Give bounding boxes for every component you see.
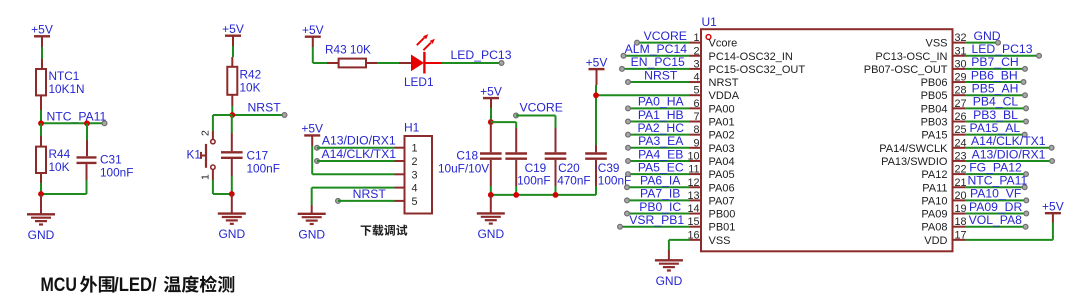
svg-text:PA09_DR: PA09_DR bbox=[969, 200, 1022, 214]
wire +5V to R43 bbox=[312, 37, 314, 47]
svg-text:11: 11 bbox=[688, 164, 699, 176]
svg-text:C17: C17 bbox=[247, 149, 269, 163]
wire C18 bottom lead bbox=[490, 160, 492, 186]
svg-text:31: 31 bbox=[955, 45, 967, 57]
pin 9 U1 (PA03) / net PA3_EA bbox=[626, 134, 735, 155]
ground (U1 VSS) bbox=[655, 259, 683, 261]
wire junction to R44 bbox=[40, 123, 42, 136]
svg-text:A13/DIO/RX1: A13/DIO/RX1 bbox=[972, 147, 1046, 161]
svg-text:C39: C39 bbox=[598, 161, 620, 175]
svg-text:U1: U1 bbox=[702, 15, 718, 29]
wire +5V to H1 pin 3 bbox=[311, 135, 313, 146]
svg-text:PA10: PA10 bbox=[921, 195, 947, 207]
svg-text:1: 1 bbox=[200, 174, 212, 180]
svg-text:PB3_BL: PB3_BL bbox=[973, 108, 1018, 122]
svg-text:C18: C18 bbox=[456, 148, 478, 162]
wire VSS pin 16 to ground bbox=[669, 239, 690, 241]
svg-text:PA11: PA11 bbox=[922, 182, 947, 194]
svg-text:VDDA: VDDA bbox=[709, 90, 740, 102]
ground (cap bank) bbox=[477, 212, 505, 214]
pin 3 U1 (PC15-OSC32_OUT) / net EN_PC15 bbox=[620, 55, 806, 76]
svg-text:VSS: VSS bbox=[925, 38, 947, 50]
svg-text:PB0_IC: PB0_IC bbox=[639, 200, 681, 214]
wire +5V to VDDA bbox=[596, 69, 598, 85]
svg-text:PA14/SWCLK: PA14/SWCLK bbox=[879, 143, 948, 155]
svg-text:100nF: 100nF bbox=[247, 162, 280, 176]
LED emission arrows bbox=[417, 34, 435, 50]
svg-text:PB05: PB05 bbox=[921, 90, 948, 102]
wire C39 bottom lead bbox=[595, 160, 597, 186]
svg-text:PA0_HA: PA0_HA bbox=[638, 95, 685, 109]
ground (H1) bbox=[298, 213, 326, 215]
svg-text:2: 2 bbox=[200, 130, 212, 136]
pin 19 U1 (PA09) / net PA09_DR bbox=[921, 200, 1028, 221]
svg-text:PA6_IA: PA6_IA bbox=[640, 174, 681, 188]
resistor R44 bbox=[36, 147, 46, 173]
wire to ground bbox=[231, 194, 233, 214]
svg-text:8: 8 bbox=[693, 124, 699, 136]
junction R42/K1/C17 bbox=[229, 112, 235, 118]
svg-text:PA02: PA02 bbox=[709, 130, 735, 142]
wire VDD to +5V bbox=[965, 239, 1053, 241]
svg-text:10K: 10K bbox=[240, 81, 261, 95]
svg-text:23: 23 bbox=[955, 150, 967, 162]
svg-text:PA10_VF: PA10_VF bbox=[970, 187, 1021, 201]
svg-text:GND: GND bbox=[218, 227, 245, 241]
svg-text:VCORE: VCORE bbox=[644, 29, 687, 43]
svg-text:100nF: 100nF bbox=[100, 166, 133, 180]
svg-text:PA05: PA05 bbox=[709, 169, 735, 181]
wire ground rail (caps) bbox=[491, 194, 596, 196]
svg-text:NRST: NRST bbox=[353, 187, 387, 201]
svg-text:PA04: PA04 bbox=[709, 156, 735, 168]
svg-text:+5V: +5V bbox=[1042, 199, 1064, 213]
junction C18 bottom bbox=[488, 192, 494, 198]
svg-text:PA01: PA01 bbox=[709, 117, 735, 129]
svg-text:PA13/SWDIO: PA13/SWDIO bbox=[881, 156, 948, 168]
svg-text:PB04: PB04 bbox=[921, 103, 948, 115]
wire R42 to node NRST bbox=[231, 95, 233, 106]
wire bottom rail R44-C31 bbox=[41, 193, 87, 195]
junction C19 bottom bbox=[513, 192, 519, 198]
svg-text:4: 4 bbox=[693, 72, 699, 84]
junction at C31 top bbox=[84, 120, 90, 126]
pin 15 U1 (PB01) / net VSR_PB1 bbox=[618, 213, 736, 234]
svg-text:FG_PA12: FG_PA12 bbox=[969, 160, 1022, 174]
svg-text:10K1N: 10K1N bbox=[49, 82, 85, 96]
capacitor C19, value 100nF bbox=[505, 152, 527, 154]
svg-text:GND: GND bbox=[974, 29, 1001, 43]
svg-text:R43 10K: R43 10K bbox=[325, 43, 371, 57]
wire R43 to LED1 bbox=[366, 62, 377, 64]
svg-text:A13/DIO/RX1: A13/DIO/RX1 bbox=[322, 134, 396, 148]
pin 18 U1 (PA08) / net VOL_PA8 bbox=[921, 213, 1028, 234]
svg-text:5: 5 bbox=[412, 196, 418, 208]
svg-text:32: 32 bbox=[955, 32, 967, 44]
svg-text:PA15: PA15 bbox=[921, 130, 947, 142]
pin 2 U1 (PC14-OSC32_IN) / net ALM_PC14 bbox=[621, 42, 793, 63]
svg-text:NRST: NRST bbox=[644, 68, 678, 82]
pin 10 U1 (PA04) / net PA4_EB bbox=[626, 147, 735, 168]
pin 17 U1 (VDD) bbox=[924, 229, 966, 247]
capacitor C17 bbox=[221, 151, 243, 153]
wire R44 to ground rail bbox=[40, 173, 42, 183]
switch K1 (push button) bbox=[211, 139, 215, 143]
svg-text:MCU: MCU bbox=[41, 275, 77, 296]
svg-text:+5V: +5V bbox=[31, 23, 53, 37]
pin 1 U1 (Vcore) / net VCORE bbox=[635, 29, 738, 50]
svg-text:7: 7 bbox=[693, 111, 699, 123]
wire C19 bottom lead bbox=[515, 160, 517, 186]
U1 pin-1 marker circle bbox=[706, 35, 711, 40]
pin 32 U1 (VSS) / net GND bbox=[925, 29, 1000, 50]
svg-text:PA4_EB: PA4_EB bbox=[638, 147, 683, 161]
pin 5 U1 (VDDA) bbox=[690, 85, 740, 103]
pin 7 U1 (PA01) / net PA1_HB bbox=[626, 108, 735, 129]
svg-text:PB7_CH: PB7_CH bbox=[971, 55, 1018, 69]
wire C17 bottom lead bbox=[231, 159, 233, 176]
pin 12 U1 (PA06) / net PA6_IA bbox=[625, 174, 735, 195]
ground (K1/C17 branch) bbox=[218, 212, 246, 214]
wire C31 bottom lead bbox=[86, 164, 88, 180]
pin 28 U1 (PB05) / net PB5_AH bbox=[921, 82, 1028, 103]
svg-text:PA15_AL: PA15_AL bbox=[970, 121, 1021, 135]
svg-text:VCORE: VCORE bbox=[520, 101, 563, 115]
svg-text:PA2_HC: PA2_HC bbox=[637, 121, 684, 135]
svg-text:EN_PC15: EN_PC15 bbox=[631, 55, 685, 69]
pin 25 U1 (PA15) / net PA15_AL bbox=[921, 121, 1027, 142]
wire NRST stub bbox=[232, 114, 284, 116]
svg-text:19: 19 bbox=[955, 203, 967, 215]
svg-text:PB07-OSC_OUT: PB07-OSC_OUT bbox=[864, 64, 948, 76]
svg-text:3: 3 bbox=[693, 58, 699, 70]
svg-text:K1: K1 bbox=[187, 148, 201, 162]
svg-text:GND: GND bbox=[298, 227, 325, 241]
svg-text:GND: GND bbox=[656, 274, 683, 288]
svg-text:C20: C20 bbox=[558, 161, 580, 175]
svg-text:PA5_EC: PA5_EC bbox=[638, 160, 684, 174]
svg-text:PA03: PA03 bbox=[709, 143, 735, 155]
svg-text:PB06: PB06 bbox=[921, 77, 948, 89]
wire NTC1 to node bbox=[40, 95, 42, 110]
svg-text:10uF/10V: 10uF/10V bbox=[438, 161, 489, 175]
connector H1 bbox=[405, 136, 433, 214]
no-connect end NRST bbox=[282, 113, 287, 118]
svg-text:+5V: +5V bbox=[301, 122, 323, 136]
svg-text:A14/CLK/TX1: A14/CLK/TX1 bbox=[321, 147, 396, 161]
svg-text:29: 29 bbox=[955, 72, 967, 84]
svg-text:470nF: 470nF bbox=[557, 174, 590, 188]
pin 22 U1 (PA12) / net FG_PA12 bbox=[921, 160, 1028, 181]
svg-text:17: 17 bbox=[955, 229, 967, 241]
wire K1 to bottom rail bbox=[212, 170, 214, 180]
svg-text:1: 1 bbox=[693, 32, 699, 44]
svg-text:30: 30 bbox=[955, 58, 967, 70]
svg-text:LED_PC13: LED_PC13 bbox=[972, 42, 1033, 56]
svg-text:NTC_PA11: NTC_PA11 bbox=[47, 109, 107, 123]
svg-text:26: 26 bbox=[955, 111, 967, 123]
svg-text:VSS: VSS bbox=[709, 235, 731, 247]
pin 23 U1 (PA13/SWDIO) / net A13/DIO/RX1 bbox=[881, 147, 1054, 168]
svg-text:VSR_PB1: VSR_PB1 bbox=[629, 213, 684, 227]
svg-text:PA08: PA08 bbox=[921, 222, 947, 234]
LED LED1 bbox=[411, 55, 424, 72]
wire C31 top lead bbox=[86, 123, 88, 140]
junction at ground bbox=[38, 191, 44, 197]
svg-text:R42: R42 bbox=[240, 68, 262, 82]
svg-text:25: 25 bbox=[955, 124, 967, 136]
wire +5V to NTC1 bbox=[41, 36, 43, 47]
wire LED1 to LED_PC13 bbox=[424, 62, 442, 64]
svg-text:H1: H1 bbox=[404, 121, 420, 135]
svg-text:6: 6 bbox=[693, 98, 699, 110]
svg-text:PB00: PB00 bbox=[709, 209, 736, 221]
pin 30 U1 (PB07-OSC_OUT) / net PB7_CH bbox=[864, 55, 1028, 76]
wire to ground (caps) bbox=[490, 195, 492, 214]
pin 8 U1 (PA02) / net PA2_HC bbox=[626, 121, 735, 142]
pin 4 U1 (NRST) / net NRST bbox=[626, 68, 739, 89]
svg-text:2: 2 bbox=[693, 45, 699, 57]
svg-text:VOL_PA8: VOL_PA8 bbox=[969, 213, 1023, 227]
svg-text:PA7_IB: PA7_IB bbox=[640, 187, 680, 201]
junction at ground (K1/C17) bbox=[229, 191, 235, 197]
svg-text:2: 2 bbox=[412, 156, 418, 168]
pin 31 U1 (PC13-OSC_IN) / net LED_PC13 bbox=[875, 42, 1041, 63]
svg-text:PC15-OSC32_OUT: PC15-OSC32_OUT bbox=[709, 64, 806, 76]
pin 24 U1 (PA14/SWCLK) / net A14/CLK/TX1 bbox=[879, 134, 1054, 155]
svg-text:PB4_CL: PB4_CL bbox=[973, 95, 1019, 109]
wire node to K1 bbox=[213, 114, 232, 116]
IC U1 body bbox=[701, 29, 953, 251]
svg-text:3: 3 bbox=[412, 169, 418, 181]
svg-text:NRST: NRST bbox=[709, 77, 739, 89]
pin 20 U1 (PA10) / net PA10_VF bbox=[921, 187, 1028, 208]
svg-text:9: 9 bbox=[693, 137, 699, 149]
svg-text:27: 27 bbox=[955, 98, 967, 110]
svg-text:PB01: PB01 bbox=[709, 222, 736, 234]
wire C20 bottom lead bbox=[555, 160, 557, 186]
svg-text:GND: GND bbox=[477, 227, 504, 241]
svg-text:4: 4 bbox=[412, 183, 418, 195]
wire +5V rail to C19 bbox=[491, 121, 516, 123]
svg-text:PB03: PB03 bbox=[921, 117, 948, 129]
label 下载调试 (download/debug) bbox=[361, 225, 408, 236]
junction at NTC1/R44 bbox=[38, 120, 44, 126]
svg-text:VDD: VDD bbox=[924, 235, 947, 247]
junction VDDA / C39 bbox=[593, 92, 599, 98]
wire C39 top lead from VDDA rail bbox=[595, 95, 597, 145]
junction C20 bottom bbox=[553, 192, 559, 198]
pin 21 U1 (PA11) / net NTC_PA11 bbox=[922, 174, 1027, 195]
svg-text:100nF: 100nF bbox=[517, 174, 550, 188]
capacitor C20, value 470nF bbox=[545, 152, 567, 154]
pin 16 U1 (VSS) bbox=[687, 229, 730, 247]
svg-text:C19: C19 bbox=[525, 161, 547, 175]
pin 29 U1 (PB06) / net PB6_BH bbox=[921, 68, 1026, 89]
svg-text:+5V: +5V bbox=[302, 23, 324, 37]
wire +5V to R42 bbox=[232, 36, 234, 46]
pin 13 U1 (PA07) / net PA7_IB bbox=[625, 187, 735, 208]
svg-text:A14/CLK/TX1: A14/CLK/TX1 bbox=[971, 134, 1046, 148]
no-connect end NTC_PA11 bbox=[102, 121, 107, 126]
svg-text:PA09: PA09 bbox=[921, 209, 947, 221]
svg-text:PA12: PA12 bbox=[921, 169, 947, 181]
svg-text:28: 28 bbox=[955, 85, 967, 97]
pin 14 U1 (PB00) / net PB0_IC bbox=[625, 200, 736, 221]
svg-text:NTC1: NTC1 bbox=[49, 69, 80, 83]
resistor R43, value 10K bbox=[339, 59, 366, 68]
svg-text:PA1_HB: PA1_HB bbox=[638, 108, 684, 122]
pin 27 U1 (PB04) / net PB4_CL bbox=[921, 95, 1029, 116]
svg-text:NTC_PA11: NTC_PA11 bbox=[968, 174, 1028, 188]
resistor R42 bbox=[227, 67, 237, 95]
ground (NTC1 branch) bbox=[27, 213, 55, 215]
svg-text:LED_PC13: LED_PC13 bbox=[451, 48, 512, 62]
svg-text:ALM_PC14: ALM_PC14 bbox=[625, 42, 688, 56]
junction C18 top bbox=[488, 119, 494, 125]
wire VCORE to C20 bbox=[555, 116, 557, 129]
wire NTC_PA11 bbox=[41, 122, 104, 124]
svg-text:PC13-OSC_IN: PC13-OSC_IN bbox=[875, 51, 947, 63]
svg-text:PB6_BH: PB6_BH bbox=[971, 68, 1018, 82]
capacitor C18, value 10uF/10V bbox=[480, 152, 502, 154]
svg-text:PA07: PA07 bbox=[709, 195, 735, 207]
title MCU peripherals / LED / temperature sensing bbox=[41, 275, 235, 296]
wire +5V to C18 bbox=[490, 98, 492, 108]
pin 26 U1 (PB03) / net PB3_BL bbox=[921, 108, 1029, 129]
svg-text:GND: GND bbox=[28, 228, 55, 242]
capacitor C39, value 100nF bbox=[585, 152, 607, 154]
svg-text:PB5_AH: PB5_AH bbox=[972, 82, 1019, 96]
pin 11 U1 (PA05) / net PA5_EC bbox=[626, 160, 735, 181]
svg-text:LED1: LED1 bbox=[404, 75, 434, 89]
svg-text:+5V: +5V bbox=[222, 22, 244, 36]
svg-text:C31: C31 bbox=[100, 153, 122, 167]
svg-text:PA00: PA00 bbox=[709, 103, 735, 115]
svg-text:+5V: +5V bbox=[586, 55, 608, 69]
svg-text:21: 21 bbox=[955, 177, 967, 189]
svg-text:10K: 10K bbox=[49, 160, 70, 174]
capacitor C31 bbox=[77, 156, 97, 158]
svg-text:22: 22 bbox=[955, 164, 967, 176]
svg-text:20: 20 bbox=[955, 190, 967, 202]
pin 6 U1 (PA00) / net PA0_HA bbox=[626, 95, 735, 116]
svg-text:R44: R44 bbox=[49, 147, 71, 161]
svg-text:24: 24 bbox=[955, 137, 967, 149]
svg-text:PA06: PA06 bbox=[709, 182, 735, 194]
svg-text:PC14-OSC32_IN: PC14-OSC32_IN bbox=[709, 51, 793, 63]
node VCORE bbox=[514, 113, 519, 118]
svg-text:/LED/: /LED/ bbox=[114, 275, 157, 296]
no-connect end LED_PC13 bbox=[499, 61, 504, 66]
svg-text:Vcore: Vcore bbox=[709, 38, 738, 50]
wire to ground bbox=[40, 194, 42, 214]
svg-text:5: 5 bbox=[693, 85, 699, 97]
svg-text:18: 18 bbox=[955, 216, 967, 228]
svg-text:+5V: +5V bbox=[480, 84, 502, 98]
svg-text:NRST: NRST bbox=[248, 101, 282, 115]
thermistor NTC1 bbox=[36, 69, 46, 95]
wire C17 top lead bbox=[231, 115, 233, 133]
wire C18 top lead bbox=[490, 119, 492, 152]
svg-text:1: 1 bbox=[412, 143, 418, 155]
svg-text:PA3_EA: PA3_EA bbox=[638, 134, 684, 148]
